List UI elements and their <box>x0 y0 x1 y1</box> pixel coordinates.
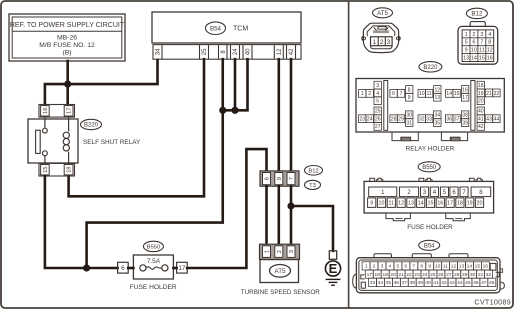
svg-text:39: 39 <box>417 280 423 286</box>
svg-text:28: 28 <box>391 117 397 123</box>
wire node A to TCM pin 34 <box>68 60 158 84</box>
svg-text:15: 15 <box>454 91 460 97</box>
svg-text:44: 44 <box>457 280 463 286</box>
relay holder pin 34 <box>434 111 441 119</box>
relay holder pin 21 <box>485 89 492 97</box>
wire stub body to fuse box17 <box>173 267 176 270</box>
svg-text:17: 17 <box>67 108 73 114</box>
B54 pin 6 <box>402 262 410 270</box>
svg-text:3: 3 <box>387 39 391 46</box>
B12 connector face drawing <box>458 22 498 65</box>
B54 top right latch square <box>490 263 496 270</box>
svg-text:5: 5 <box>376 99 379 105</box>
relay holder pin 29 <box>397 115 404 123</box>
svg-text:B54: B54 <box>424 244 435 250</box>
fuse holder fuse 6 <box>450 187 458 197</box>
svg-text:20: 20 <box>477 201 483 207</box>
svg-text:2: 2 <box>373 264 376 270</box>
relay lower pin row <box>39 163 75 176</box>
svg-text:28: 28 <box>454 272 460 278</box>
relay holder pin 31 <box>406 119 413 127</box>
svg-text:40: 40 <box>246 48 252 55</box>
wire connector pin 9 to sensor pin 2 <box>277 186 280 245</box>
svg-text:23: 23 <box>414 272 420 278</box>
B54 pin 4 <box>386 262 394 270</box>
fuse holder mounting tab left <box>386 213 411 221</box>
svg-text:42: 42 <box>441 280 447 286</box>
relay holder mounting tab left <box>392 132 418 141</box>
B12 pin grid 1-16 <box>462 30 494 62</box>
fuse holder pin 17 <box>446 198 454 208</box>
wire stub fuse box6 to body <box>128 267 133 270</box>
B54 pin 10 <box>434 262 442 270</box>
svg-text:9: 9 <box>277 177 283 180</box>
junction node B pin24 <box>231 107 238 114</box>
B54 pin 46 <box>472 278 480 286</box>
wire fuse pin 17 to connector B12 pin 6 <box>187 149 266 268</box>
relay holder pin 13 <box>434 93 441 101</box>
wire relay pin 15 to fuse pin 6 <box>45 176 118 268</box>
B54 pin 19 <box>381 270 389 278</box>
fuse holder fuse 4 <box>430 187 438 197</box>
relay holder pin 7 <box>397 90 404 98</box>
svg-text:16: 16 <box>437 201 443 207</box>
B54 pin 8 <box>418 262 426 270</box>
svg-text:7: 7 <box>289 177 295 180</box>
svg-text:6: 6 <box>265 177 271 180</box>
relay holder pin 6 <box>390 90 397 98</box>
relay holder pin 8 <box>406 86 413 94</box>
svg-text:11: 11 <box>443 264 448 270</box>
TCM connector pin row <box>153 45 301 60</box>
svg-text:B12: B12 <box>308 168 318 174</box>
svg-text:TURBINE SPEED SENSOR: TURBINE SPEED SENSOR <box>241 289 321 296</box>
B54 pin 24 <box>421 270 429 278</box>
relay holder pin 43 <box>485 115 492 123</box>
fuse holder pin 15 <box>426 198 434 208</box>
svg-text:29: 29 <box>462 272 468 278</box>
relay holder pin 44 <box>493 115 500 123</box>
relay holder pin 32 <box>418 115 425 123</box>
AT5 pin row cells <box>371 37 393 46</box>
svg-text:13: 13 <box>408 201 414 207</box>
B54 pin 16 <box>481 262 489 270</box>
svg-text:16: 16 <box>483 264 489 270</box>
B54 pin 15 <box>473 262 481 270</box>
svg-text:MB-26: MB-26 <box>57 34 77 41</box>
svg-text:17: 17 <box>447 201 453 207</box>
relay holder mounting tab right <box>441 132 467 141</box>
oval label T3 inline <box>305 180 321 189</box>
svg-text:9: 9 <box>370 201 373 207</box>
svg-text:M/B FUSE NO. 12: M/B FUSE NO. 12 <box>39 42 95 49</box>
svg-text:25: 25 <box>430 272 436 278</box>
svg-text:31: 31 <box>478 272 484 278</box>
relay holder pin 20 <box>477 97 484 105</box>
relay contact bar <box>36 130 41 153</box>
svg-text:16: 16 <box>487 56 493 62</box>
junction node A <box>64 81 71 88</box>
svg-text:6: 6 <box>404 264 407 270</box>
svg-text:14: 14 <box>418 201 424 207</box>
svg-text:31: 31 <box>406 120 412 126</box>
svg-text:26: 26 <box>438 272 444 278</box>
relay holder pin 5 <box>374 97 381 105</box>
svg-text:15: 15 <box>479 56 485 62</box>
svg-text:24: 24 <box>367 117 373 123</box>
relay holder pin 40 <box>477 107 484 115</box>
relay holder pin 18 <box>477 81 484 89</box>
oval label B12 panel <box>466 8 487 18</box>
svg-text:10: 10 <box>471 48 477 54</box>
fuse holder fuse 3 <box>421 187 429 197</box>
junction node C at fuse feed <box>83 264 90 271</box>
svg-text:2: 2 <box>368 91 371 97</box>
B54 pin 40 <box>424 278 432 286</box>
B54 pin 36 <box>392 278 400 286</box>
B54 pin 2 <box>370 262 378 270</box>
relay holder pin 28 <box>390 115 397 123</box>
relay holder pin 12 <box>434 86 441 94</box>
svg-text:FUSE HOLDER: FUSE HOLDER <box>407 224 453 231</box>
oval label B550 panel <box>418 162 440 172</box>
svg-text:23: 23 <box>359 117 365 123</box>
svg-text:4: 4 <box>376 91 379 97</box>
svg-text:2: 2 <box>472 32 475 38</box>
svg-text:1: 1 <box>372 39 376 46</box>
svg-text:10: 10 <box>379 201 385 207</box>
svg-text:46: 46 <box>473 280 479 286</box>
relay upper pin row <box>39 105 75 118</box>
B54 pin 37 <box>400 278 408 286</box>
svg-text:B550: B550 <box>422 165 437 171</box>
B54 pin 38 <box>408 278 416 286</box>
svg-text:22: 22 <box>406 272 412 278</box>
relay holder pin 38 <box>461 111 468 119</box>
turbine speed sensor connector row <box>260 244 300 259</box>
svg-text:8: 8 <box>408 87 411 93</box>
B54 pin 44 <box>456 278 464 286</box>
oval label B220 panel <box>419 62 442 72</box>
svg-text:REF. TO POWER SUPPLY CIRCUIT: REF. TO POWER SUPPLY CIRCUIT <box>10 22 125 29</box>
svg-text:30: 30 <box>470 272 476 278</box>
wire TCM pin 24 to node B <box>234 59 237 110</box>
ground terminal box <box>329 251 336 259</box>
relay holder pin 22 <box>493 89 500 97</box>
B54 pin 41 <box>432 278 440 286</box>
svg-text:37: 37 <box>454 117 460 123</box>
oval label B12 inline <box>305 166 323 176</box>
svg-text:SELF SHUT RELAY: SELF SHUT RELAY <box>83 139 141 146</box>
svg-text:3: 3 <box>376 83 379 89</box>
svg-text:8: 8 <box>488 40 491 46</box>
B54 pin 33 <box>369 278 377 286</box>
B54 pin 12 <box>450 262 458 270</box>
svg-text:7.5A: 7.5A <box>147 258 161 265</box>
fuse holder pin 19 <box>466 198 474 208</box>
relay holder pin 26 <box>374 115 381 123</box>
power supply reference box MB-26 <box>9 14 125 61</box>
wire node A to relay pin 17 <box>66 84 69 104</box>
relay coil L1 <box>63 117 69 164</box>
svg-text:11: 11 <box>389 201 395 207</box>
svg-text:41: 41 <box>433 280 439 286</box>
wire TCM pin 12 to connector B12 pin 9 <box>277 59 280 171</box>
fuse holder top clip middle <box>419 178 432 181</box>
svg-text:1: 1 <box>361 91 364 97</box>
oval label B54 <box>206 22 226 35</box>
svg-text:CVT10089: CVT10089 <box>474 297 511 306</box>
svg-text:FUSE HOLDER: FUSE HOLDER <box>130 284 177 291</box>
svg-text:21: 21 <box>398 272 404 278</box>
svg-text:22: 22 <box>494 91 500 97</box>
relay holder pin 37 <box>453 115 460 123</box>
relay holder body B220 <box>356 79 504 133</box>
svg-text:4: 4 <box>488 32 491 38</box>
svg-text:16: 16 <box>462 87 468 93</box>
B54 pin 28 <box>453 270 461 278</box>
svg-text:12: 12 <box>487 48 493 54</box>
B54 pin 3 <box>378 262 386 270</box>
svg-text:25: 25 <box>375 109 381 115</box>
fuse pin 6 box <box>118 262 129 273</box>
svg-text:15: 15 <box>428 201 434 207</box>
relay holder divider bar left <box>384 81 388 131</box>
B54 pin 29 <box>461 270 469 278</box>
svg-text:38: 38 <box>462 113 468 119</box>
svg-text:1: 1 <box>465 32 468 38</box>
svg-text:42: 42 <box>289 48 295 55</box>
svg-text:33: 33 <box>426 117 432 123</box>
svg-text:48: 48 <box>489 280 495 286</box>
fuse holder pin 14 <box>417 198 425 208</box>
svg-text:13: 13 <box>434 95 440 101</box>
B54 right latch bracket <box>496 272 500 276</box>
relay holder pin 33 <box>425 115 432 123</box>
svg-text:4: 4 <box>389 264 392 270</box>
svg-text:B220: B220 <box>423 65 438 71</box>
fuse holder fuse 7 <box>460 187 468 197</box>
relay holder pin 16 <box>461 86 468 94</box>
fuse holder fuse 1 <box>369 187 397 197</box>
svg-text:17: 17 <box>178 265 186 272</box>
B54 pin 9 <box>426 262 434 270</box>
svg-text:36: 36 <box>446 117 452 123</box>
svg-text:13: 13 <box>459 264 465 270</box>
svg-text:B12: B12 <box>471 11 483 18</box>
relay holder pin 35 <box>434 119 441 127</box>
oval label AT5 schematic <box>270 265 291 278</box>
svg-text:15: 15 <box>475 264 481 270</box>
svg-text:B54: B54 <box>210 25 222 32</box>
fuse holder pin 18 <box>456 198 464 208</box>
svg-text:14: 14 <box>446 91 452 97</box>
svg-text:19: 19 <box>382 272 388 278</box>
svg-text:19: 19 <box>478 91 484 97</box>
svg-text:18: 18 <box>478 83 484 89</box>
B54 pin 45 <box>464 278 472 286</box>
svg-text:9: 9 <box>408 95 411 101</box>
relay holder pin 27 <box>374 123 381 131</box>
inline connector B12 T3 <box>260 171 299 186</box>
oval label B54 panel <box>419 240 440 250</box>
svg-text:AT5: AT5 <box>377 10 388 17</box>
relay holder pin 23 <box>359 115 366 123</box>
svg-text:1: 1 <box>265 250 271 253</box>
svg-text:2: 2 <box>277 250 283 253</box>
svg-text:E: E <box>329 261 338 276</box>
fuse holder top clip left <box>370 178 383 181</box>
AT5 connector face drawing <box>362 23 400 52</box>
B54 pin 32 <box>485 270 493 278</box>
svg-text:26: 26 <box>375 117 381 123</box>
svg-text:9: 9 <box>465 48 468 54</box>
svg-text:3: 3 <box>289 250 295 253</box>
svg-text:42: 42 <box>478 124 484 130</box>
wire connector pin 6 to sensor pin 1 <box>265 186 268 245</box>
svg-text:TCM: TCM <box>233 26 248 33</box>
B54 pin 1 <box>362 262 370 270</box>
svg-text:21: 21 <box>486 91 492 97</box>
wire TCM pin 8 to node B to fuse junction <box>87 59 223 268</box>
svg-text:17: 17 <box>367 272 373 278</box>
relay contact wire and terminals <box>43 117 48 164</box>
B54 pin 43 <box>448 278 456 286</box>
B54 pin 21 <box>397 270 405 278</box>
svg-text:24: 24 <box>233 48 239 55</box>
B54 pin 48 <box>488 278 496 286</box>
fuse holder fuse 2 <box>400 187 419 197</box>
svg-text:6: 6 <box>392 91 395 97</box>
relay holder pin 2 <box>366 90 373 98</box>
TCM connector B54 face drawing <box>353 254 505 293</box>
oval label AT5 panel <box>373 8 393 18</box>
svg-text:18: 18 <box>67 166 73 172</box>
svg-text:(B): (B) <box>62 50 71 57</box>
B54 pin 18 <box>373 270 381 278</box>
relay holder pin 4 <box>374 89 381 97</box>
relay holder pin 14 <box>446 90 453 98</box>
svg-text:10: 10 <box>435 264 441 270</box>
B54 pin 23 <box>413 270 421 278</box>
relay holder pin 19 <box>477 89 484 97</box>
B54 pin 11 <box>442 262 450 270</box>
svg-text:18: 18 <box>374 272 380 278</box>
fuse holder fuse 8 <box>471 187 491 197</box>
svg-text:32: 32 <box>419 117 425 123</box>
panel divider line <box>348 2 350 308</box>
svg-text:40: 40 <box>478 109 484 115</box>
svg-text:27: 27 <box>446 272 452 278</box>
svg-text:38: 38 <box>409 280 415 286</box>
svg-text:16: 16 <box>43 108 49 114</box>
relay holder pin 3 <box>374 81 381 89</box>
svg-text:11: 11 <box>479 48 485 54</box>
self shut relay K1 B220 <box>28 119 78 163</box>
svg-text:20: 20 <box>390 272 396 278</box>
wire TCM pin 40 to node B bus <box>223 59 248 110</box>
fuse holder pin 13 <box>407 198 415 208</box>
relay holder pin 9 <box>406 93 413 101</box>
ground symbol E <box>325 261 340 285</box>
relay holder pin 36 <box>446 115 453 123</box>
fuse holder pin 9 <box>368 198 376 208</box>
B54 pin 20 <box>389 270 397 278</box>
fuse holder body B550 <box>364 181 494 213</box>
B54 pin 31 <box>477 270 485 278</box>
fuse holder pin 12 <box>397 198 405 208</box>
svg-text:35: 35 <box>386 280 392 286</box>
B54 pin 34 <box>376 278 384 286</box>
svg-text:12: 12 <box>398 201 404 207</box>
fuse holder pin 16 <box>436 198 444 208</box>
relay holder pin 15 <box>453 90 460 98</box>
svg-text:11: 11 <box>426 91 431 97</box>
turbine speed sensor body AT5 <box>260 260 299 283</box>
svg-text:25: 25 <box>202 48 208 55</box>
fuse element symbol <box>140 265 168 271</box>
svg-text:13: 13 <box>463 56 469 62</box>
fuse pin 17 box <box>177 262 188 273</box>
fuse holder mounting tab right <box>446 213 471 221</box>
relay holder pin 25 <box>374 107 381 115</box>
svg-text:37: 37 <box>402 280 408 286</box>
B54 pin 13 <box>458 262 466 270</box>
relay holder pin 30 <box>406 111 413 119</box>
svg-text:RELAY HOLDER: RELAY HOLDER <box>406 146 455 153</box>
svg-text:B220: B220 <box>84 123 99 129</box>
junction node D to ground <box>287 202 294 209</box>
svg-text:12: 12 <box>277 48 283 55</box>
svg-text:30: 30 <box>406 113 412 119</box>
svg-text:12: 12 <box>451 264 457 270</box>
B54 pin 17 <box>365 270 373 278</box>
svg-text:44: 44 <box>494 117 500 123</box>
svg-text:2: 2 <box>380 39 384 46</box>
svg-text:9: 9 <box>428 264 431 270</box>
fuse holder top clip right <box>469 178 482 181</box>
relay holder pin 10 <box>418 90 425 98</box>
wire TCM pin 42 to connector B12 pin 7 <box>290 59 293 171</box>
B54 pin 27 <box>445 270 453 278</box>
B54 pin 14 <box>466 262 474 270</box>
svg-text:36: 36 <box>394 280 400 286</box>
svg-text:T3: T3 <box>309 183 316 189</box>
TCM control module U1 B54 <box>152 12 301 43</box>
wire node D to ground E <box>291 206 333 251</box>
svg-text:19: 19 <box>467 201 473 207</box>
svg-text:6: 6 <box>472 40 475 46</box>
svg-text:1: 1 <box>365 264 368 270</box>
svg-text:32: 32 <box>486 272 492 278</box>
relay holder pin 17 <box>461 93 468 101</box>
B54 pin 47 <box>480 278 488 286</box>
B54 pin 39 <box>416 278 424 286</box>
svg-text:34: 34 <box>378 280 384 286</box>
wire node A to relay pin 16 <box>45 84 68 104</box>
relay holder pin 24 <box>366 115 373 123</box>
B54 left latch bracket <box>361 275 365 279</box>
fuse holder F1 B550 schematic <box>133 255 173 279</box>
svg-text:10: 10 <box>419 91 425 97</box>
wire connector pin 7 to sensor pin 3 <box>290 186 293 245</box>
svg-text:47: 47 <box>481 280 487 286</box>
svg-text:34: 34 <box>156 48 162 55</box>
svg-text:34: 34 <box>434 113 440 119</box>
svg-text:33: 33 <box>370 280 376 286</box>
B54 pin 26 <box>437 270 445 278</box>
relay holder divider bar right <box>471 81 475 131</box>
